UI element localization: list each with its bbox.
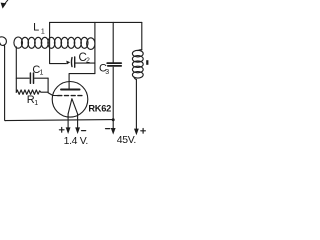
svg-text:1: 1 <box>40 70 44 77</box>
tube envelope RK62 <box>52 82 88 118</box>
svg-text:3: 3 <box>105 69 109 76</box>
capacitor C1 wires <box>16 77 29 79</box>
wire: right end of L1 up to bus and down to plate U-turn <box>94 22 96 73</box>
svg-text:1.4 V.: 1.4 V. <box>64 136 88 147</box>
label 45V <box>117 135 136 146</box>
plate bar <box>61 89 80 91</box>
plus sign 45V <box>141 129 146 134</box>
wire: bus drop through L1 tap to C2 branch <box>50 22 67 63</box>
wire: relay coil down to B+ arrow <box>134 79 139 135</box>
antenna coupling coil <box>0 37 6 47</box>
wire: antenna coil down left side <box>4 47 7 121</box>
wire: bottom common rail <box>5 120 114 121</box>
wire: C3 bottom down to B- arrow <box>111 67 116 134</box>
minus sign 45V <box>106 128 110 130</box>
label C3 <box>99 62 109 76</box>
wire: top bus <box>50 21 142 23</box>
relay coil <box>132 50 143 80</box>
label C2 <box>79 52 91 65</box>
wire: plate U-turn to tube plate cap <box>69 74 95 90</box>
capacitor C2 <box>71 57 74 67</box>
svg-text:1: 1 <box>34 100 38 107</box>
wire: L1 left end down to grid network <box>15 47 17 92</box>
wire: filament lead A- with arrow <box>75 114 80 134</box>
capacitor C3 top wire from bus <box>112 22 114 62</box>
capacitor C1 <box>30 73 33 83</box>
label R1 <box>27 94 39 107</box>
label 1.4V <box>64 136 88 147</box>
svg-text:45V.: 45V. <box>117 135 136 146</box>
svg-text:L: L <box>33 21 39 33</box>
wire: bus right corner down to relay coil <box>141 22 143 49</box>
plus sign 1.4V <box>59 128 64 133</box>
antenna lead arrow <box>1 0 8 9</box>
variable capacitor C2 arrow <box>66 61 70 65</box>
capacitor C3 <box>107 63 121 66</box>
label RK62 <box>88 104 111 114</box>
label L1 <box>33 21 45 35</box>
wire: grid network right side <box>48 78 58 95</box>
label C1 <box>32 64 43 77</box>
relay label fragment at edge <box>146 60 148 65</box>
wire: C2 to plate node <box>75 62 95 64</box>
minus sign 1.4V <box>82 130 86 132</box>
resistor R1 <box>16 90 48 95</box>
svg-text:RK62: RK62 <box>88 104 111 114</box>
svg-text:1: 1 <box>41 29 45 36</box>
grid (dashed) <box>58 95 85 97</box>
filament <box>68 99 78 114</box>
wire: filament lead A+ with arrow <box>66 114 71 134</box>
inductor L1 <box>14 37 95 49</box>
